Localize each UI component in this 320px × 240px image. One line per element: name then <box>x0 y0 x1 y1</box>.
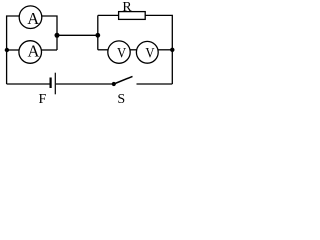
svg-text:V: V <box>145 46 154 62</box>
svg-text:R: R <box>122 0 132 15</box>
svg-text:A: A <box>27 9 39 28</box>
svg-text:A: A <box>28 42 40 61</box>
svg-text:F: F <box>39 92 47 104</box>
svg-text:V: V <box>117 46 126 62</box>
svg-text:S: S <box>117 92 125 104</box>
